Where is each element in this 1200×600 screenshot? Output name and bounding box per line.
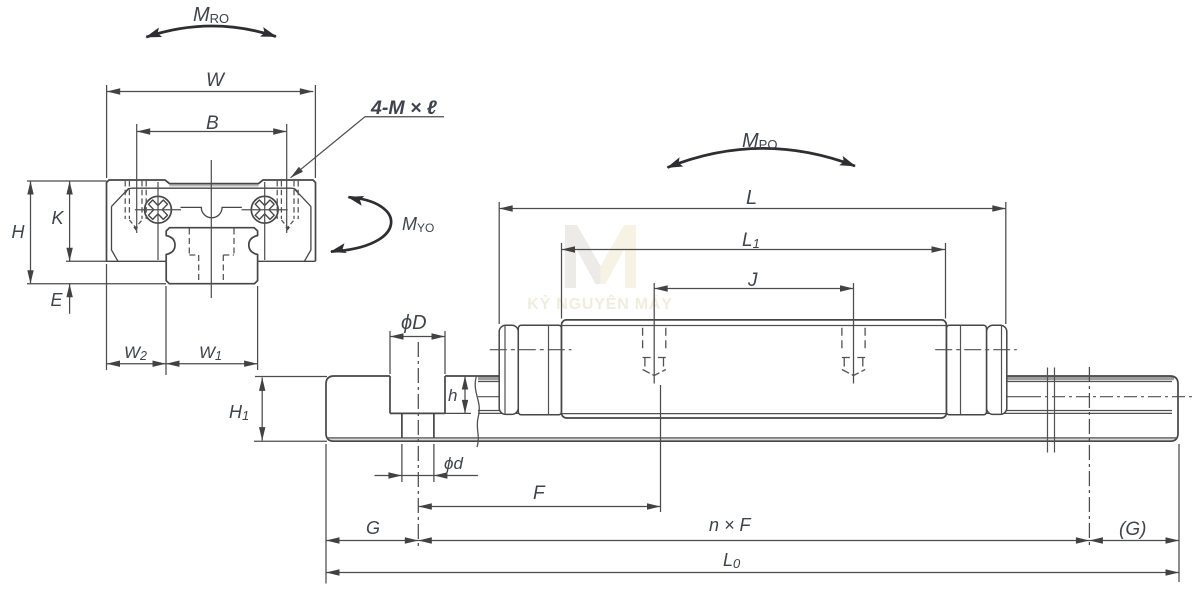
svg-text:L: L	[746, 187, 757, 209]
rail outline side view	[326, 376, 1178, 441]
block inner side left	[112, 206, 119, 261]
ball phillips cross right	[255, 200, 274, 219]
ball phillips cross left	[149, 200, 168, 219]
dim H	[27, 181, 166, 284]
tapped hole centerline / B extension right	[286, 124, 288, 233]
ball centerline horizontal left	[135, 209, 181, 211]
svg-text:H1: H1	[229, 402, 249, 423]
block bottom inner line	[562, 413, 947, 415]
block inner top plate line	[126, 188, 299, 193]
nipple inner line left	[504, 325, 506, 414]
svg-text:G: G	[366, 518, 380, 538]
ball centerline horizontal right	[242, 209, 288, 211]
rail mounting hole counterbore (dashed)	[189, 229, 234, 256]
view vertical centerline	[210, 160, 212, 298]
dim K	[66, 181, 107, 261]
dim L	[499, 202, 1006, 324]
carriage tapped hole 1	[643, 328, 666, 376]
svg-text:B: B	[206, 113, 219, 134]
dim phid	[375, 444, 479, 482]
carriage white cover	[499, 320, 1007, 418]
dim G / nxF / (G)	[326, 444, 1179, 584]
svg-text:MPO: MPO	[742, 130, 777, 152]
carriage tapped hole 2	[842, 328, 865, 376]
svg-text:J: J	[747, 270, 758, 291]
dim F	[418, 506, 660, 508]
cap inner line left	[548, 325, 550, 415]
rail band lower line	[478, 381, 1172, 383]
moment arc MRO	[146, 26, 276, 37]
dim phiD	[390, 331, 445, 374]
nipple centerline left	[490, 349, 572, 351]
svg-text:K: K	[52, 208, 65, 228]
dim h	[441, 376, 471, 413]
dim J	[654, 283, 853, 384]
ball circle right	[251, 196, 278, 223]
nipple inner line right	[1001, 325, 1003, 414]
hole centerline first	[417, 342, 419, 548]
svg-text:n × F: n × F	[709, 515, 752, 535]
svg-text:h: h	[448, 386, 457, 405]
svg-text:H: H	[12, 222, 26, 242]
leader 4-M	[291, 117, 445, 178]
svg-text:ϕD: ϕD	[401, 312, 427, 334]
end cap right	[946, 325, 986, 415]
carriage block body	[562, 320, 947, 418]
cap inner line right	[960, 325, 962, 415]
svg-text:W: W	[206, 70, 226, 91]
svg-text:L1: L1	[742, 230, 760, 251]
rail lower sides	[166, 261, 257, 283]
dim W2 W1	[107, 264, 258, 375]
rail mid centerline	[478, 396, 1028, 398]
dim L0	[326, 572, 1179, 574]
tapped hole right (dashed)	[277, 181, 298, 219]
rail inner bottom line	[328, 437, 1176, 439]
watermark logo M	[565, 225, 636, 288]
tapped hole centerline / B extension left	[136, 124, 138, 233]
block top inner line	[562, 325, 947, 327]
svg-text:E: E	[51, 290, 64, 310]
dim E	[69, 284, 71, 314]
hole centerline second	[660, 385, 662, 512]
block bottom edge left	[107, 260, 167, 262]
grease nipple plate left	[499, 325, 518, 414]
svg-text:L0: L0	[723, 550, 741, 571]
block outline	[107, 180, 316, 261]
rail top shade band	[478, 377, 1174, 381]
rail break marks	[1048, 368, 1055, 453]
block bottom edge right	[258, 260, 316, 262]
svg-text:W1: W1	[199, 343, 222, 363]
svg-text:KỶ NGUYÊN MÁY: KỶ NGUYÊN MÁY	[527, 294, 673, 313]
ball circle left	[145, 196, 172, 223]
rail groove upper line	[478, 410, 1172, 412]
hole centerline last	[1088, 367, 1090, 548]
rail section break S-curve	[475, 376, 479, 448]
dim H1	[254, 377, 327, 442]
svg-text:4-M × ℓ: 4-M × ℓ	[370, 97, 438, 119]
svg-text:F: F	[533, 483, 546, 504]
moment arc MYO	[331, 197, 391, 251]
svg-text:MRO: MRO	[193, 4, 229, 26]
svg-text:W2: W2	[124, 343, 147, 363]
svg-text:(G): (G)	[1119, 519, 1146, 540]
rail bottom shade band	[330, 438, 1174, 440]
raceway line with gothic arch	[181, 207, 242, 217]
block inner chamfer left	[112, 188, 129, 206]
dim B	[137, 131, 287, 133]
rail groove lower line	[478, 412, 1172, 414]
svg-text:MYO: MYO	[402, 214, 434, 235]
block top recess shade	[170, 185, 259, 187]
block inner chamfer right	[294, 188, 311, 206]
ball centerline vertical right	[264, 182, 266, 260]
ball centerline vertical left	[157, 182, 159, 260]
arrowheads dims	[27, 88, 1179, 575]
moment arc MPO	[668, 148, 856, 167]
tapped hole left (dashed)	[125, 181, 146, 219]
grease nipple plate right	[987, 325, 1007, 414]
dim L1	[562, 243, 946, 319]
svg-text:ϕd: ϕd	[444, 454, 463, 473]
rail small hole walls	[402, 413, 434, 438]
dim W	[107, 85, 316, 178]
nipple centerline right	[935, 349, 1017, 351]
rail counterbore walls	[390, 376, 445, 413]
block inner side right	[304, 206, 311, 261]
end cap left	[518, 325, 561, 415]
rail cross-section outline	[166, 228, 257, 262]
